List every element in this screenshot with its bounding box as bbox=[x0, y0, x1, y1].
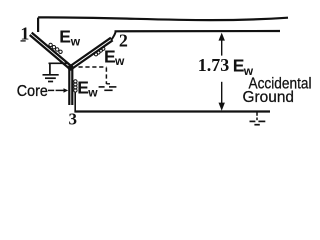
svg-text:Core: Core bbox=[17, 83, 48, 100]
svg-text:w: w bbox=[114, 54, 125, 68]
svg-text:E: E bbox=[77, 78, 89, 98]
svg-text:Ground: Ground bbox=[243, 89, 295, 106]
svg-text:2: 2 bbox=[119, 31, 128, 51]
svg-text:w: w bbox=[70, 34, 81, 48]
svg-text:E: E bbox=[233, 55, 245, 75]
svg-text:w: w bbox=[87, 85, 98, 99]
svg-text:3: 3 bbox=[69, 110, 78, 129]
svg-text:1.73: 1.73 bbox=[198, 55, 230, 75]
svg-text:E: E bbox=[59, 27, 71, 47]
svg-text:E: E bbox=[104, 47, 116, 67]
